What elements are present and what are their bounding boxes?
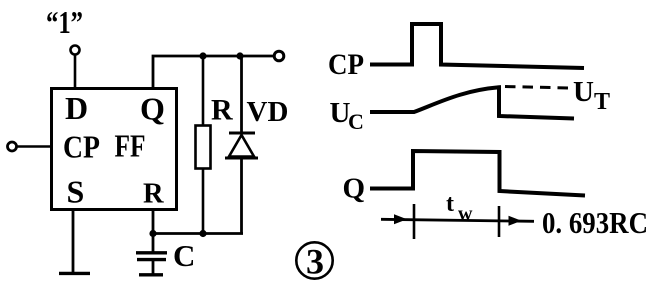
svg-text:C: C: [173, 238, 195, 273]
svg-text:Q: Q: [343, 173, 366, 205]
svg-text:Q: Q: [140, 91, 165, 127]
svg-text:T: T: [594, 89, 610, 115]
svg-text:VD: VD: [247, 96, 289, 128]
svg-text:C: C: [348, 109, 364, 134]
svg-text:D: D: [65, 90, 88, 126]
svg-text:3: 3: [306, 242, 324, 282]
svg-text:U: U: [573, 76, 594, 108]
svg-text:S: S: [67, 174, 85, 210]
svg-text:0. 693RC: 0. 693RC: [542, 205, 648, 240]
svg-text:CP: CP: [63, 129, 100, 165]
svg-text:CP: CP: [328, 48, 364, 81]
svg-text:t: t: [446, 191, 454, 217]
svg-text:FF: FF: [115, 128, 146, 164]
svg-text:“1”: “1”: [46, 4, 83, 40]
svg-text:R: R: [211, 94, 233, 127]
svg-text:R: R: [143, 179, 164, 210]
svg-text:w: w: [458, 203, 473, 225]
